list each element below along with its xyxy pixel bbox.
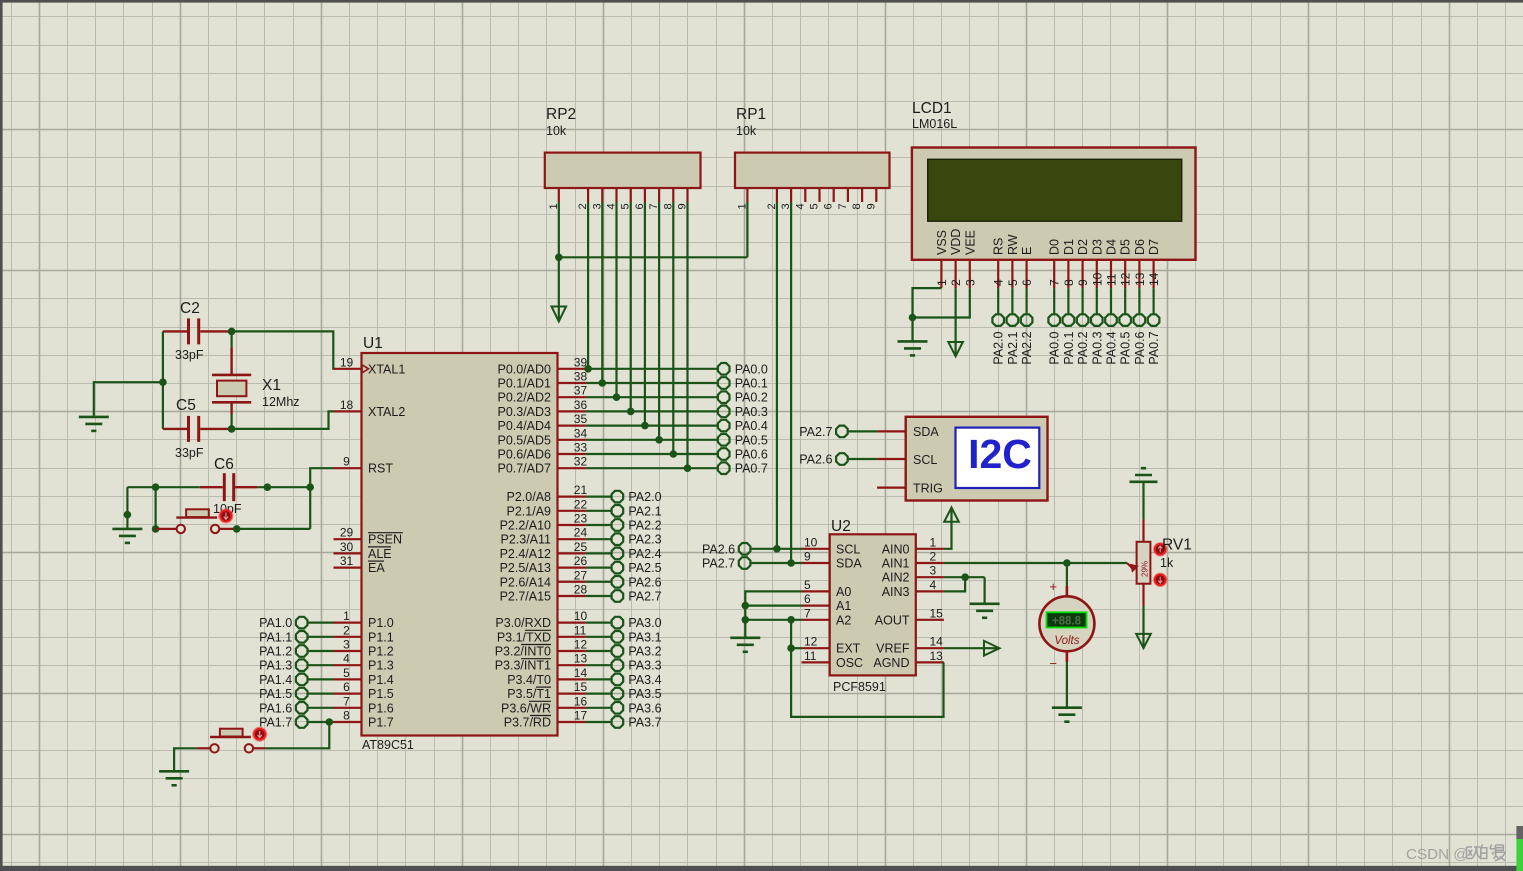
wire voltmeter to ground bbox=[1066, 662, 1068, 708]
svg-text:EA: EA bbox=[368, 561, 385, 575]
wire RP2 pin2 to P0.0 bbox=[587, 202, 589, 369]
wire LCD RS bbox=[997, 288, 999, 314]
terminal PA2.6 bbox=[612, 576, 624, 588]
svg-text:12: 12 bbox=[574, 638, 588, 652]
wire RP2 pin9 to P0.7 bbox=[686, 202, 688, 468]
terminal PA3.5 bbox=[612, 688, 624, 700]
svg-text:PA0.2: PA0.2 bbox=[1076, 331, 1090, 364]
wire RV1 top bbox=[1142, 482, 1144, 520]
terminal PA0.1 bbox=[718, 377, 730, 389]
svg-text:8: 8 bbox=[1062, 279, 1076, 286]
svg-text:PA3.7: PA3.7 bbox=[628, 716, 661, 730]
wire button left to ground bbox=[174, 748, 197, 771]
svg-text:PA3.2: PA3.2 bbox=[628, 645, 661, 659]
wire LCD D3 bbox=[1096, 288, 1098, 314]
svg-text:P1.7: P1.7 bbox=[368, 716, 394, 730]
svg-text:PA0.1: PA0.1 bbox=[1062, 331, 1076, 364]
terminal PA0.5 bbox=[718, 434, 730, 446]
svg-text:8: 8 bbox=[343, 709, 350, 723]
svg-text:P0.7/AD7: P0.7/AD7 bbox=[497, 462, 551, 476]
U1 right pin stubs bbox=[558, 368, 586, 370]
terminal PA3.3 bbox=[612, 659, 624, 671]
junction A2 left bbox=[742, 616, 750, 624]
terminal PA3.6 bbox=[612, 702, 624, 714]
terminal PA1.7 bbox=[296, 716, 308, 728]
terminal PA1.3 bbox=[296, 659, 308, 671]
potentiometer RV1 body bbox=[1137, 542, 1151, 584]
I2C debugger body bbox=[906, 417, 1048, 501]
junction RST vertical bbox=[306, 483, 314, 491]
LCD pin stubs bbox=[940, 260, 942, 288]
svg-text:4: 4 bbox=[992, 279, 1006, 286]
capacitor C2 bbox=[163, 330, 187, 332]
svg-text:I2C: I2C bbox=[968, 431, 1032, 477]
svg-text:AIN3: AIN3 bbox=[882, 585, 910, 599]
svg-text:P3.7/RD: P3.7/RD bbox=[504, 716, 551, 730]
RV1 actuator up bbox=[1154, 543, 1167, 556]
wire AIN2 ground stem bbox=[983, 577, 985, 604]
wire VEE join bbox=[913, 288, 970, 317]
wire C2 left / C5 left bbox=[162, 331, 164, 429]
terminal PA0.7 bbox=[1148, 314, 1160, 326]
svg-text:PA2.6: PA2.6 bbox=[628, 575, 661, 589]
svg-text:3: 3 bbox=[343, 638, 350, 652]
svg-text:PA2.4: PA2.4 bbox=[628, 547, 661, 561]
svg-text:P0.5/AD5: P0.5/AD5 bbox=[497, 433, 551, 447]
wire RP2 pin4 to P0.2 bbox=[615, 202, 617, 397]
junction crystal left ground bbox=[159, 378, 167, 386]
svg-text:30: 30 bbox=[340, 540, 354, 554]
svg-text:C5: C5 bbox=[176, 397, 196, 414]
svg-text:PA1.1: PA1.1 bbox=[259, 630, 292, 644]
RP1 pin stubs bbox=[746, 188, 748, 202]
svg-text:P3.5/T1: P3.5/T1 bbox=[507, 687, 551, 701]
svg-text:PA0.5: PA0.5 bbox=[735, 433, 768, 447]
svg-text:5: 5 bbox=[809, 203, 821, 209]
wire LCD D4 bbox=[1110, 288, 1112, 314]
ground voltmeter bbox=[1052, 706, 1082, 709]
svg-text:LCD1: LCD1 bbox=[912, 100, 952, 117]
wire P1.3 to terminal bbox=[308, 664, 333, 666]
wire RP2 pin7 to P0.5 bbox=[658, 202, 660, 440]
wire C6 left bbox=[127, 486, 199, 488]
svg-text:2: 2 bbox=[930, 550, 937, 564]
wire P0.4 to terminal bbox=[586, 425, 718, 427]
svg-text:+: + bbox=[1049, 579, 1057, 594]
wire P1.7 to terminal bbox=[308, 721, 333, 723]
svg-text:CSDN @: CSDN @ bbox=[1406, 846, 1469, 863]
svg-text:12: 12 bbox=[1119, 272, 1133, 286]
svg-text:P2.3/A11: P2.3/A11 bbox=[500, 533, 551, 547]
svg-text:P0.1/AD1: P0.1/AD1 bbox=[497, 377, 551, 391]
svg-text:3: 3 bbox=[963, 279, 977, 286]
svg-text:P2.1/A9: P2.1/A9 bbox=[507, 504, 552, 518]
svg-text:PA2.3: PA2.3 bbox=[628, 533, 661, 547]
wire LCD E bbox=[1025, 288, 1027, 314]
svg-text:XTAL2: XTAL2 bbox=[368, 405, 405, 419]
svg-text:RP1: RP1 bbox=[736, 106, 766, 123]
svg-text:D1: D1 bbox=[1062, 239, 1076, 255]
wire C5 right to XTAL2 bbox=[228, 411, 334, 429]
svg-text:12: 12 bbox=[804, 635, 818, 649]
svg-text:23: 23 bbox=[574, 512, 588, 526]
svg-text:6: 6 bbox=[343, 680, 350, 694]
svg-text:PA3.5: PA3.5 bbox=[628, 687, 661, 701]
wire to ground arrow bbox=[558, 257, 560, 306]
svg-text:15: 15 bbox=[930, 606, 944, 620]
svg-text:RP2: RP2 bbox=[546, 106, 576, 123]
wire AIN2 bbox=[944, 576, 985, 578]
svg-text:PA2.6: PA2.6 bbox=[799, 453, 832, 467]
wire P0.3 to terminal bbox=[586, 410, 718, 412]
terminal PA2.5 bbox=[612, 562, 624, 574]
svg-text:9: 9 bbox=[804, 550, 811, 564]
junction AIN2/AIN3 bbox=[961, 573, 969, 581]
terminal PA3.7 bbox=[612, 716, 624, 728]
svg-text:34: 34 bbox=[574, 426, 588, 440]
svg-text:C6: C6 bbox=[214, 456, 234, 473]
wire P2.5 to terminal bbox=[586, 566, 611, 568]
terminal PA1.4 bbox=[296, 674, 308, 686]
wire button right to RST bbox=[237, 528, 311, 530]
svg-text:VEE: VEE bbox=[963, 230, 977, 255]
wire P1.6 to terminal bbox=[308, 707, 333, 709]
svg-text:A2: A2 bbox=[836, 613, 851, 627]
svg-text:33: 33 bbox=[574, 441, 588, 455]
svg-text:13: 13 bbox=[574, 652, 588, 666]
capacitor C5 bbox=[163, 428, 187, 430]
RV1 bottom lead bbox=[1142, 584, 1144, 606]
junction A1 bbox=[742, 602, 750, 610]
svg-text:AIN1: AIN1 bbox=[882, 557, 910, 571]
junction P0.4 bbox=[641, 422, 649, 430]
svg-text:+88.8: +88.8 bbox=[1052, 615, 1082, 627]
svg-text:TRIG: TRIG bbox=[913, 481, 943, 495]
svg-text:P3.3/INT1: P3.3/INT1 bbox=[495, 659, 551, 673]
wire A2-EXT-AGND loop bbox=[791, 620, 943, 717]
svg-text:PA2.6: PA2.6 bbox=[702, 542, 735, 556]
svg-text:PA2.0: PA2.0 bbox=[992, 331, 1006, 364]
svg-text:VSS: VSS bbox=[935, 230, 949, 255]
svg-text:14: 14 bbox=[1147, 272, 1161, 286]
svg-text:RV1: RV1 bbox=[1162, 537, 1192, 554]
wire LCD D2 bbox=[1081, 288, 1083, 314]
junction RP1 pin3 / SDA bbox=[787, 559, 795, 567]
svg-text:31: 31 bbox=[340, 554, 354, 568]
svg-text:17: 17 bbox=[574, 709, 588, 723]
svg-text:PA2.5: PA2.5 bbox=[628, 561, 661, 575]
wire PA2.6 to SCL bbox=[751, 548, 801, 550]
resistor pack RP2 body bbox=[545, 153, 701, 188]
junction A2 / EXT vertical bbox=[787, 616, 795, 624]
svg-text:7: 7 bbox=[804, 606, 811, 620]
ground reset bbox=[112, 528, 142, 531]
wire RP2 pin5 to P0.3 bbox=[630, 202, 632, 411]
P1.7 button actuator bbox=[253, 727, 267, 741]
svg-text:C2: C2 bbox=[180, 300, 200, 317]
wire AIN3 bbox=[944, 577, 965, 591]
wire P2.1 to terminal bbox=[586, 510, 611, 512]
svg-text:Volts: Volts bbox=[1054, 635, 1079, 647]
svg-text:EXT: EXT bbox=[836, 642, 861, 656]
svg-text:P1.2: P1.2 bbox=[368, 645, 394, 659]
terminal PA2.7 (U2) bbox=[739, 557, 751, 569]
svg-text:VDD: VDD bbox=[949, 229, 963, 255]
ADC U2 PCF8591 body bbox=[830, 534, 916, 675]
terminal PA0.2 bbox=[718, 391, 730, 403]
U2 left pin stubs bbox=[802, 548, 830, 550]
svg-text:15: 15 bbox=[574, 680, 588, 694]
terminal PA2.3 bbox=[612, 533, 624, 545]
wire P2.6 to terminal bbox=[586, 581, 611, 583]
wire P1.0 to terminal bbox=[308, 621, 333, 623]
wire AIN0 to power arrow bbox=[944, 522, 952, 549]
wire C6 left to ground bbox=[126, 487, 128, 529]
svg-text:10: 10 bbox=[574, 609, 588, 623]
wire RP1 pin3 to U2 SDA bbox=[790, 202, 792, 563]
svg-text:P3.0/RXD: P3.0/RXD bbox=[495, 616, 551, 630]
crystal X1 bbox=[231, 331, 233, 347]
svg-text:P2.4/A12: P2.4/A12 bbox=[500, 547, 551, 561]
junction button left branch bbox=[152, 483, 160, 491]
terminal PA0.6 bbox=[718, 448, 730, 460]
svg-text:RS: RS bbox=[992, 238, 1006, 255]
svg-text:4: 4 bbox=[930, 578, 937, 592]
wire LCD D1 bbox=[1067, 288, 1069, 314]
svg-text:OSC: OSC bbox=[836, 656, 863, 670]
svg-text:RW: RW bbox=[1006, 234, 1020, 255]
svg-text:1: 1 bbox=[935, 279, 949, 286]
svg-text:PA0.4: PA0.4 bbox=[735, 419, 768, 433]
junction button right bbox=[233, 525, 241, 533]
ground arrow below RV1 bbox=[1136, 634, 1151, 648]
svg-text:P1.6: P1.6 bbox=[368, 701, 394, 715]
junction RP1 pin2 / SCL bbox=[773, 545, 781, 553]
RV1 actuator down bbox=[1154, 573, 1167, 586]
resistor pack RP1 body bbox=[735, 153, 890, 188]
watermark CSDN bbox=[1406, 845, 1506, 864]
junction C5/X1 bbox=[228, 425, 236, 433]
ground A0-A2 bbox=[730, 636, 760, 639]
I2C white panel bbox=[956, 428, 1040, 488]
terminal PA3.0 bbox=[612, 617, 624, 629]
wire RP1 pin2 to U2 SCL bbox=[776, 202, 778, 549]
junction voltmeter tap bbox=[1063, 559, 1071, 567]
wire RP2 pin3 to P0.1 bbox=[601, 202, 603, 383]
wire P0.0 to terminal bbox=[586, 368, 718, 370]
svg-text:10: 10 bbox=[1090, 272, 1104, 286]
svg-text:9: 9 bbox=[343, 455, 350, 469]
svg-text:38: 38 bbox=[574, 370, 588, 384]
wire RP1 pin1 down bbox=[746, 202, 748, 257]
svg-text:32: 32 bbox=[574, 455, 588, 469]
svg-text:AIN2: AIN2 bbox=[882, 571, 910, 585]
svg-text:4: 4 bbox=[343, 652, 350, 666]
svg-text:PA0.2: PA0.2 bbox=[735, 391, 768, 405]
svg-text:PA3.3: PA3.3 bbox=[628, 659, 661, 673]
svg-text:1: 1 bbox=[930, 535, 937, 549]
svg-text:7: 7 bbox=[837, 203, 849, 209]
wire P3.6 to terminal bbox=[586, 707, 611, 709]
svg-text:U2: U2 bbox=[831, 518, 851, 535]
svg-text:28: 28 bbox=[574, 583, 588, 597]
junction C6 right bbox=[264, 483, 272, 491]
svg-text:PA2.7: PA2.7 bbox=[702, 557, 735, 571]
svg-text:P0.0/AD0: P0.0/AD0 bbox=[497, 362, 551, 376]
power down arrow VDD bbox=[948, 342, 963, 356]
wire P2.2 to terminal bbox=[586, 524, 611, 526]
terminal PA1.2 bbox=[296, 645, 308, 657]
svg-text:U1: U1 bbox=[363, 335, 383, 352]
terminal PA2.1 bbox=[612, 505, 624, 517]
wire P3.0 to terminal bbox=[586, 621, 611, 623]
svg-text:PA2.1: PA2.1 bbox=[628, 504, 661, 518]
scrollbar cap bbox=[1516, 826, 1523, 839]
svg-text:1k: 1k bbox=[1160, 556, 1174, 570]
power rail symbol above RV1 bbox=[1130, 480, 1158, 483]
terminal PA0.7 bbox=[718, 462, 730, 474]
terminal PA2.4 bbox=[612, 548, 624, 560]
svg-text:P3.4/T0: P3.4/T0 bbox=[507, 673, 551, 687]
microcontroller U1 AT89C51 body bbox=[362, 353, 558, 736]
svg-text:PA0.7: PA0.7 bbox=[1147, 331, 1161, 364]
svg-text:PA1.5: PA1.5 bbox=[259, 687, 292, 701]
wire P3.2 to terminal bbox=[586, 650, 611, 652]
terminal PA1.1 bbox=[296, 631, 308, 643]
svg-text:13: 13 bbox=[1133, 272, 1147, 286]
terminal PA1.6 bbox=[296, 702, 308, 714]
svg-text:PA0.5: PA0.5 bbox=[1119, 331, 1133, 364]
svg-text:PA0.0: PA0.0 bbox=[1048, 331, 1062, 364]
svg-text:14: 14 bbox=[574, 666, 588, 680]
svg-text:35: 35 bbox=[574, 412, 588, 426]
svg-text:SCL: SCL bbox=[913, 453, 937, 467]
svg-text:PA0.6: PA0.6 bbox=[1133, 331, 1147, 364]
svg-text:D2: D2 bbox=[1076, 239, 1090, 255]
junction RP2 pin1 bus bbox=[555, 253, 563, 261]
ground P1.7 button bbox=[159, 770, 189, 773]
wire P0.5 to terminal bbox=[586, 439, 718, 441]
terminal PA2.7 (I2C) bbox=[836, 426, 848, 438]
svg-text:6: 6 bbox=[1020, 279, 1034, 286]
wire RP2 pin8 to P0.6 bbox=[672, 202, 674, 454]
ground arrow below RP2 pin1 bbox=[552, 307, 567, 322]
terminal PA3.2 bbox=[612, 645, 624, 657]
window left edge bbox=[0, 0, 3, 871]
svg-text:AOUT: AOUT bbox=[875, 613, 910, 627]
svg-text:4: 4 bbox=[794, 203, 806, 209]
wire P0.7 to terminal bbox=[586, 467, 718, 469]
wire LCD RW bbox=[1011, 288, 1013, 314]
window bottom edge bbox=[0, 866, 1523, 871]
wire LCD D6 bbox=[1138, 288, 1140, 314]
U2 right pin stubs bbox=[916, 548, 944, 550]
svg-text:33pF: 33pF bbox=[175, 446, 204, 460]
svg-text:PA1.7: PA1.7 bbox=[259, 716, 292, 730]
wire EXT bbox=[791, 647, 801, 649]
terminal PA0.4 bbox=[718, 420, 730, 432]
wire LCD D7 bbox=[1152, 288, 1154, 314]
svg-text:PA0.0: PA0.0 bbox=[735, 362, 768, 376]
RV1 wiper arrow bbox=[1127, 563, 1134, 570]
RV1 top lead bbox=[1142, 519, 1144, 542]
svg-text:AT89C51: AT89C51 bbox=[362, 738, 414, 752]
svg-text:PA0.1: PA0.1 bbox=[735, 377, 768, 391]
svg-text:6: 6 bbox=[804, 592, 811, 606]
svg-text:P2.2/A10: P2.2/A10 bbox=[500, 519, 551, 533]
pin XTAL1 input arrow bbox=[362, 365, 369, 373]
junction P1.7 bbox=[326, 718, 334, 726]
LCD screen bbox=[928, 159, 1182, 221]
svg-text:16: 16 bbox=[574, 694, 588, 708]
voltmeter top pin bbox=[1066, 586, 1069, 597]
svg-text:ALE: ALE bbox=[368, 547, 392, 561]
svg-text:PA1.2: PA1.2 bbox=[259, 645, 292, 659]
ground AIN2 bbox=[970, 602, 1000, 605]
terminal PA3.4 bbox=[612, 674, 624, 686]
svg-text:A0: A0 bbox=[836, 585, 851, 599]
wire RP2 pin1 down bbox=[558, 202, 560, 257]
wire P3.3 to terminal bbox=[586, 664, 611, 666]
svg-text:2: 2 bbox=[949, 279, 963, 286]
svg-text:33pF: 33pF bbox=[175, 348, 204, 362]
wire A1 bbox=[745, 604, 801, 606]
svg-text:11: 11 bbox=[804, 649, 817, 663]
svg-text:PA0.4: PA0.4 bbox=[1105, 331, 1119, 364]
wire ground stem LCD bbox=[911, 318, 913, 342]
ground LCD VSS bbox=[898, 340, 928, 343]
svg-text:P0.2/AD2: P0.2/AD2 bbox=[497, 391, 551, 405]
terminal PA0.6 bbox=[1134, 314, 1146, 326]
terminal PA0.4 bbox=[1105, 314, 1117, 326]
svg-text:P2.0/A8: P2.0/A8 bbox=[507, 490, 552, 504]
reset button actuator bbox=[219, 509, 233, 523]
wire VREF to arrow bbox=[944, 647, 984, 649]
capacitor C6 bbox=[200, 486, 223, 488]
wire RV1 bottom bbox=[1142, 606, 1144, 634]
svg-text:D5: D5 bbox=[1119, 239, 1133, 255]
svg-text:7: 7 bbox=[343, 694, 350, 708]
terminal PA2.1 bbox=[1007, 314, 1019, 326]
junction VSS/VEE bbox=[909, 314, 917, 322]
wire to ground left bbox=[94, 382, 163, 417]
svg-text:11: 11 bbox=[1105, 273, 1119, 286]
svg-text:5: 5 bbox=[343, 666, 350, 680]
wire P0.2 to terminal bbox=[586, 396, 718, 398]
svg-text:5: 5 bbox=[804, 578, 811, 592]
svg-text:PA3.1: PA3.1 bbox=[628, 630, 661, 644]
svg-text:7: 7 bbox=[1048, 279, 1062, 286]
ground crystal bbox=[79, 416, 109, 419]
wire C2 right to XTAL1 bbox=[228, 331, 334, 368]
wire RP2 pin6 to P0.4 bbox=[644, 202, 646, 426]
wire P3.4 to terminal bbox=[586, 678, 611, 680]
terminal PA0.2 bbox=[1077, 314, 1089, 326]
svg-text:P3.1/TXD: P3.1/TXD bbox=[497, 630, 551, 644]
svg-text:SDA: SDA bbox=[913, 425, 939, 439]
terminal PA0.1 bbox=[1063, 314, 1075, 326]
voltmeter body bbox=[1039, 596, 1094, 651]
svg-text:36: 36 bbox=[574, 398, 588, 412]
wire button1 left vertical bbox=[155, 487, 157, 529]
terminal PA2.6 (U2) bbox=[739, 543, 751, 555]
svg-text:PA2.7: PA2.7 bbox=[799, 425, 832, 439]
junction P0.0 bbox=[584, 365, 592, 373]
terminal PA2.0 bbox=[612, 491, 624, 503]
svg-text:9: 9 bbox=[865, 203, 877, 209]
svg-text:SCL: SCL bbox=[836, 542, 860, 556]
wire P1.2 to terminal bbox=[308, 650, 333, 652]
